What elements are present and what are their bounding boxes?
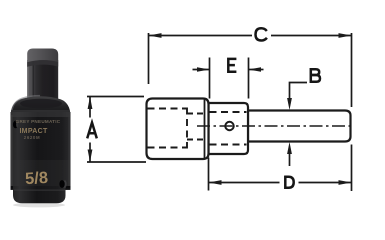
svg-text:GREY PNEUMATIC: GREY PNEUMATIC (16, 119, 61, 124)
arrow C left (149, 33, 162, 38)
photo: bit left edge highlight (27, 60, 29, 98)
socket body outline (147, 99, 209, 160)
hidden line: bore bottom (187, 139, 204, 141)
svg-text:IMPACT: IMPACT (19, 128, 48, 135)
dim C extension lines (148, 33, 150, 84)
dim B leader (290, 83, 308, 100)
label E (227, 58, 236, 73)
hidden line: bore top (187, 113, 204, 115)
hidden line: drive hole bottom (148, 147, 188, 149)
arrow E left (197, 67, 210, 72)
hidden line: nose bore top (210, 111, 247, 113)
dimension letters (87, 28, 320, 189)
nose collar (209, 103, 249, 154)
hidden line: nose bore bottom (210, 144, 247, 146)
dimensions (87, 33, 352, 191)
photo: socket main body (11, 112, 71, 190)
photo: socket bottom band (13, 186, 66, 203)
label B (310, 68, 320, 83)
label C (256, 28, 267, 40)
photo: body right edge highlight (68, 115, 70, 187)
dim A extension lines (87, 96, 144, 98)
hidden line: drive hole top (148, 108, 188, 110)
arrow C right (339, 33, 352, 38)
shaft (hex bit) (248, 111, 351, 142)
dim D line (209, 182, 280, 184)
dim E arrow lines (193, 69, 210, 71)
photo: socket groove (11, 186, 71, 189)
photo: body left edge highlight (11, 115, 13, 187)
photo: shoulder chamfer band (11, 110, 70, 117)
arrow D right (339, 180, 352, 185)
photo: hex bit top cap (27, 49, 58, 63)
photo: shoulder recess around bit (20, 99, 62, 109)
photo: hex bit shank (27, 60, 58, 100)
photo: bottom shadow (13, 203, 65, 208)
dim D extension lines (208, 158, 210, 191)
arrow A up (88, 97, 93, 110)
arrowheads (88, 33, 352, 185)
arrow B down (287, 98, 292, 110)
photo: bottom band top highlight (14, 190, 65, 191)
photo: bit cap chamfer edge (27, 60, 58, 67)
arrow E right (249, 67, 262, 72)
arrow D left (209, 180, 222, 185)
svg-text:5/8: 5/8 (25, 169, 49, 188)
dim E extension lines (209, 58, 211, 99)
photo: bit facet line (33, 60, 35, 98)
label D (284, 176, 293, 189)
hidden line: drive hole end (186, 108, 188, 149)
pin hole circle (225, 122, 233, 130)
photo: lower body sheen (11, 160, 70, 186)
photo: shoulder rim highlight (12, 96, 40, 110)
photo: impact socket with hex bit (11, 49, 71, 208)
body face line (204, 99, 206, 159)
arrow A down (88, 150, 93, 163)
photo: socket shoulder dome (11, 96, 71, 116)
svg-text:2620M: 2620M (24, 135, 40, 140)
technical drawing (147, 99, 352, 160)
arrow B up (287, 142, 292, 154)
dim C line (149, 35, 253, 37)
photo: pin hole right notch (59, 180, 64, 188)
label A (87, 123, 97, 139)
centerline (197, 125, 351, 127)
photo: pin hole left (13, 121, 18, 128)
dim A line (89, 97, 91, 118)
